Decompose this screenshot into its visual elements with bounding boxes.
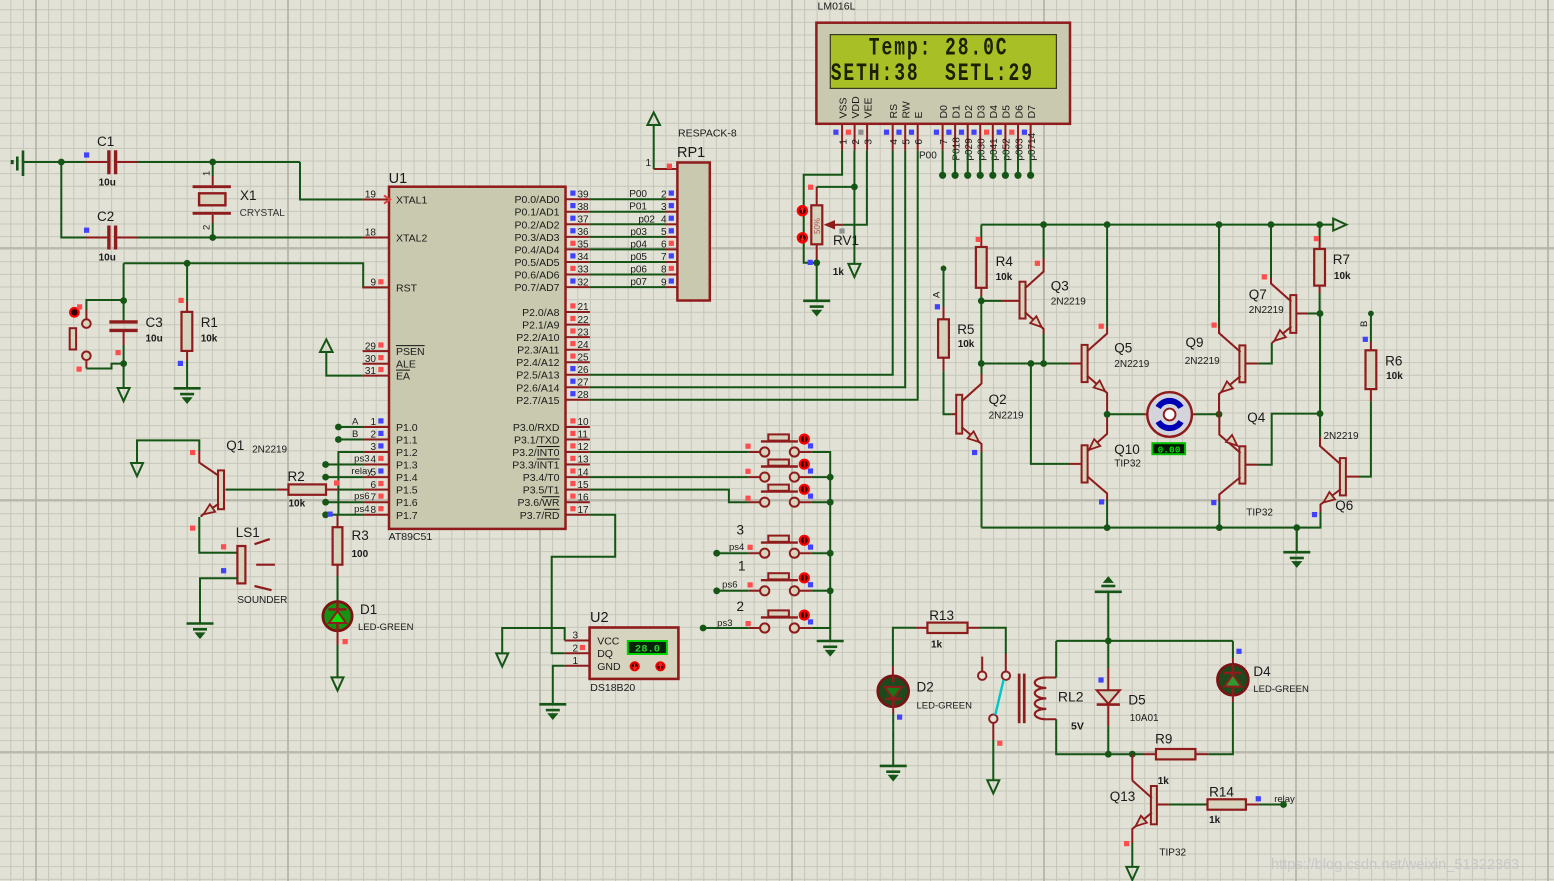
U1 left pins PSEN ALE EA [363, 350, 389, 352]
junction [978, 360, 985, 367]
svg-text:LED-GREEN: LED-GREEN [1253, 684, 1309, 695]
svg-text:23: 23 [578, 327, 590, 338]
svg-text:LS1: LS1 [236, 525, 260, 540]
wire VDD down [853, 150, 855, 264]
button 5 (ps6) [749, 572, 812, 595]
junction [184, 260, 191, 267]
wire P3.2 to button [590, 451, 749, 453]
junction [58, 159, 65, 166]
svg-text:2N2219: 2N2219 [1051, 297, 1086, 308]
svg-text:3: 3 [661, 202, 667, 213]
push button (reset) [69, 300, 124, 369]
junction [322, 461, 329, 468]
svg-text:P3.6/WR: P3.6/WR [517, 497, 559, 509]
U1 XTAL1 clock marker [384, 196, 390, 204]
wire Q9 base [1245, 363, 1258, 365]
svg-text:Q1: Q1 [226, 438, 244, 453]
junction [1216, 524, 1223, 531]
U2 display 28.0 [628, 641, 667, 654]
svg-text:P0.2/AD2: P0.2/AD2 [515, 219, 560, 231]
ground (H-bridge) [1283, 552, 1310, 566]
svg-text:R6: R6 [1385, 354, 1402, 369]
power arrow (EA) [320, 339, 333, 352]
svg-text:p0714: p0714 [1027, 132, 1038, 160]
svg-text:p06: p06 [630, 265, 647, 276]
svg-text:E: E [913, 111, 925, 118]
svg-text:D2: D2 [963, 105, 975, 119]
node D0 [939, 172, 946, 179]
svg-text:22: 22 [578, 315, 590, 326]
junction [120, 360, 127, 367]
node D2 [964, 172, 971, 179]
svg-text:Q3: Q3 [1051, 279, 1069, 294]
svg-text:14: 14 [578, 467, 590, 478]
svg-text:P00: P00 [919, 151, 937, 162]
svg-text:SETH:38 SETL:29: SETH:38 SETL:29 [831, 59, 1034, 88]
svg-text:p05: p05 [630, 252, 647, 263]
svg-text:VEE: VEE [862, 97, 874, 118]
svg-text:relay: relay [1274, 794, 1295, 805]
wire B to P1.1 [338, 439, 363, 441]
junction [335, 436, 342, 443]
ground (RV1) [803, 301, 830, 315]
wire A to P1.0 [338, 426, 363, 428]
wire P0.4 to RP1 [590, 248, 666, 250]
wire R4 to node [980, 296, 982, 301]
svg-text:Q6: Q6 [1335, 498, 1353, 513]
svg-text:P2.2/A10: P2.2/A10 [516, 332, 559, 344]
junction [1268, 221, 1275, 228]
svg-text:2: 2 [370, 430, 376, 441]
svg-text:11: 11 [578, 430, 589, 441]
svg-text:VSS: VSS [837, 97, 849, 118]
wire RST net [124, 263, 389, 287]
svg-text:P0.5/AD5: P0.5/AD5 [515, 257, 560, 269]
wire VEE to RV1 wiper [843, 150, 867, 224]
wire to Q4 base [1258, 414, 1320, 465]
svg-text:10u: 10u [146, 334, 163, 345]
junction [335, 424, 342, 431]
wire Q5 collector to rail [1106, 225, 1108, 327]
wire RP1 pin1 to power [653, 125, 655, 169]
wire node to node [980, 301, 982, 364]
transistor Q9 2N2219 (mirrored) [1219, 327, 1245, 400]
svg-text:p041: p041 [989, 138, 1000, 161]
junction [713, 550, 720, 557]
svg-text:18: 18 [365, 228, 377, 239]
wire to motor [1107, 413, 1144, 415]
wire rail to D4 [1232, 641, 1234, 658]
wire ps4 to P1.7 [326, 514, 363, 516]
svg-text:10k: 10k [201, 334, 218, 345]
svg-text:4: 4 [661, 215, 667, 226]
junction [1129, 751, 1136, 758]
svg-text:10k: 10k [289, 499, 306, 510]
svg-text:P2.0/A8: P2.0/A8 [522, 307, 560, 319]
svg-text:RP1: RP1 [677, 145, 705, 161]
svg-text:10u: 10u [99, 178, 116, 189]
wire gnd to C1 [24, 161, 86, 163]
svg-text:29: 29 [365, 341, 377, 352]
wire Q7 base to node [1308, 313, 1320, 315]
svg-text:P0.4/AD4: P0.4/AD4 [515, 244, 560, 256]
wire U2 VCC [502, 628, 565, 653]
svg-text:P0.1/AD1: P0.1/AD1 [515, 207, 560, 219]
svg-text:2: 2 [572, 643, 578, 654]
wire LCD D2 [967, 150, 969, 173]
svg-text:ps3: ps3 [354, 454, 369, 465]
ground (buttons) [817, 641, 844, 655]
crystal X1 [193, 162, 231, 238]
wire LCD D0 [942, 150, 944, 173]
relay switch contacts [978, 654, 1010, 740]
wire top rail [981, 224, 1333, 226]
svg-text:P1.7: P1.7 [396, 510, 418, 522]
svg-text:27: 27 [578, 378, 590, 389]
junction [1028, 360, 1035, 367]
LED D2 LED-GREEN [878, 676, 909, 707]
svg-text:D5: D5 [1128, 693, 1145, 708]
wire to C2 [61, 162, 86, 238]
wire P3.4 to button [590, 476, 749, 478]
wire P0.2 to RP1 [590, 223, 666, 225]
wire RV1 top to VDD [817, 186, 855, 188]
svg-text:D4: D4 [988, 105, 1000, 119]
motor speed display 0.00 [1152, 443, 1185, 454]
svg-text:p02: p02 [638, 214, 655, 225]
wire ps6 [717, 590, 749, 592]
wire LCD D6 [1017, 150, 1019, 173]
svg-text:R1: R1 [201, 315, 218, 330]
wire Q7 base [1296, 313, 1308, 315]
node D7 [1027, 172, 1034, 179]
svg-text:XTAL1: XTAL1 [396, 195, 427, 207]
svg-text:RS: RS [888, 104, 900, 119]
wire Q9 base to Q7 emitter [1258, 343, 1271, 364]
svg-text:4: 4 [889, 139, 900, 145]
svg-text:P1.1: P1.1 [396, 435, 418, 447]
wire to XTAL1 [300, 162, 363, 200]
button 4 (ps4) [749, 535, 812, 558]
transistor Q4 TIP32 (mirrored) [1219, 428, 1245, 501]
wire LCD D7 [1030, 150, 1032, 173]
svg-text:3: 3 [863, 139, 874, 145]
svg-text:3: 3 [370, 442, 376, 453]
wire Q13 base to R14 [1157, 804, 1169, 806]
wire P0.5 to RP1 [590, 261, 666, 263]
svg-text:38: 38 [578, 202, 590, 213]
node D4 [989, 172, 996, 179]
svg-text:SOUNDER: SOUNDER [237, 595, 287, 606]
svg-text:9: 9 [661, 277, 667, 288]
wire ps6 to P1.6 [326, 501, 363, 503]
svg-text:28: 28 [578, 390, 590, 401]
relay RL2 coil [1018, 674, 1056, 724]
U1 right pins P2.0-P2.7 [566, 311, 590, 313]
junction [813, 259, 820, 266]
svg-text:D4: D4 [1253, 664, 1271, 679]
junction [713, 587, 720, 594]
svg-text:p030: p030 [977, 138, 988, 161]
junction [827, 587, 834, 594]
terminal arrow (U2 VCC) [496, 653, 508, 666]
transistor Q10 TIP32 [1082, 428, 1108, 500]
node relay [1280, 801, 1287, 808]
resistor R14 [1208, 799, 1246, 809]
svg-text:D1: D1 [360, 602, 377, 617]
wire ps4 [717, 552, 749, 554]
button 6 (ps3) [749, 610, 812, 633]
svg-text:36: 36 [578, 227, 590, 238]
wire ps3 [703, 627, 749, 629]
wire R13 to D2 [893, 628, 915, 666]
svg-text:0.00: 0.00 [1158, 444, 1181, 455]
wire C2/X1 to XTAL2 [137, 237, 363, 239]
U1 right pins P0.0-P0.7 [566, 198, 590, 200]
wire ps3 to P1.3 [326, 464, 363, 466]
svg-text:35: 35 [578, 240, 590, 251]
svg-text:D3: D3 [976, 105, 988, 119]
wire P0.1 to RP1 [590, 211, 666, 213]
svg-text:P0.6/AD6: P0.6/AD6 [515, 270, 560, 282]
junction [827, 499, 834, 506]
svg-text:7: 7 [370, 492, 376, 503]
wire RV1 to ground [816, 263, 818, 301]
svg-text:10A01: 10A01 [1130, 713, 1159, 724]
ground (R1) [174, 388, 201, 402]
svg-text:DQ: DQ [597, 648, 613, 660]
svg-text:6: 6 [661, 240, 667, 251]
node A [941, 266, 947, 272]
wire U2 GND [553, 666, 565, 704]
resistor R3 [337, 516, 339, 577]
wire P0.7 to RP1 [590, 286, 666, 288]
svg-text:5: 5 [902, 139, 913, 145]
svg-text:EA: EA [396, 371, 410, 383]
svg-text:5: 5 [661, 227, 667, 238]
junction [322, 511, 329, 518]
LED D4 LED-GREEN [1218, 664, 1249, 695]
svg-text:6: 6 [914, 139, 925, 145]
wire VSS to gnd node [804, 150, 842, 262]
capacitor C2 [86, 237, 107, 239]
potentiometer RV1 [798, 187, 843, 263]
junction [1105, 638, 1112, 645]
wire LCD D1 [954, 150, 956, 173]
svg-text:R5: R5 [957, 322, 974, 337]
svg-text:R2: R2 [288, 469, 305, 484]
svg-text:21: 21 [578, 302, 590, 313]
svg-text:1: 1 [572, 656, 578, 667]
wire rail to R4 [980, 225, 982, 240]
junction [827, 550, 834, 557]
wire relay top rail [1056, 640, 1233, 642]
svg-text:U2: U2 [590, 610, 609, 626]
svg-text:p063: p063 [1014, 138, 1025, 161]
junction [1040, 221, 1047, 228]
wire coil to rail [1055, 641, 1057, 678]
svg-text:1: 1 [738, 559, 746, 574]
svg-text:AT89C51: AT89C51 [389, 531, 433, 543]
svg-text:100: 100 [352, 549, 369, 560]
node D6 [1014, 172, 1021, 179]
wire Q2 collector [981, 364, 983, 375]
svg-text:1k: 1k [1158, 776, 1170, 787]
wire relay bottom rail [1056, 719, 1132, 754]
terminal arrow (C3 ground) [118, 388, 130, 401]
svg-text:VDD: VDD [850, 96, 862, 119]
svg-text:RW: RW [901, 101, 913, 118]
svg-text:3: 3 [572, 631, 578, 642]
svg-text:P1.3: P1.3 [396, 460, 418, 472]
svg-text:p052: p052 [1002, 138, 1013, 161]
transistor Q2 2N2219 [956, 374, 981, 452]
svg-text:Q2: Q2 [989, 392, 1007, 407]
wire Q3 emitter [1043, 334, 1045, 364]
svg-text:10: 10 [578, 417, 590, 428]
U1 left pins P1.0-P1.7 [363, 426, 389, 428]
svg-text:ALE: ALE [396, 359, 416, 371]
svg-text:relay: relay [351, 466, 372, 477]
terminal arrow (switch) [987, 780, 999, 793]
svg-text:ps3: ps3 [717, 618, 732, 629]
wire Q6 collector [1319, 431, 1321, 437]
resistor R9 [1144, 753, 1156, 755]
svg-text:C3: C3 [146, 315, 163, 330]
wire P0.0 to RP1 [590, 198, 666, 200]
svg-text:6: 6 [370, 480, 376, 491]
resistor R6 [1370, 342, 1372, 401]
svg-text:Q4: Q4 [1247, 410, 1266, 425]
resistor R13 [915, 627, 927, 629]
wire Q1 collector [137, 440, 199, 463]
wire to Q6 collector [1319, 414, 1321, 437]
wire R5 to Q2 base [944, 371, 952, 414]
svg-text:1k: 1k [833, 267, 845, 278]
wire button bus [812, 452, 830, 628]
svg-text:B: B [1359, 321, 1370, 327]
svg-text:R3: R3 [352, 528, 369, 543]
svg-text:X1: X1 [240, 188, 257, 203]
wire Q1 base to R2 [226, 489, 277, 491]
LCD pins [841, 124, 843, 151]
svg-text:P0.3/AD3: P0.3/AD3 [515, 232, 560, 244]
svg-text:1: 1 [838, 139, 849, 145]
wire R1 to ground [186, 361, 188, 388]
wire to R1 [186, 263, 188, 302]
svg-text:2N2219: 2N2219 [1114, 359, 1149, 370]
junction [1317, 410, 1324, 417]
svg-text:https://blog.csdn.net/weixin_5: https://blog.csdn.net/weixin_51322363 [1271, 857, 1519, 873]
svg-text:P1.2: P1.2 [396, 447, 418, 459]
svg-text:2: 2 [661, 189, 667, 200]
svg-text:RL2: RL2 [1058, 689, 1084, 705]
junction [1216, 221, 1223, 228]
svg-text:C1: C1 [97, 134, 114, 149]
wire to R9 [1132, 753, 1144, 755]
wire P2.6 to LCD RW [590, 150, 905, 387]
wire LCD D3 [979, 150, 981, 173]
svg-text:P1.6: P1.6 [396, 497, 418, 509]
svg-text:10k: 10k [1334, 271, 1351, 282]
svg-text:P3.1/TXD: P3.1/TXD [514, 435, 560, 447]
wire EA to power [326, 352, 362, 376]
wire B to R6 [1370, 314, 1372, 343]
wire P2.5 to LCD RS [590, 150, 893, 374]
svg-text:10k: 10k [996, 272, 1013, 283]
svg-text:DS18B20: DS18B20 [590, 682, 635, 694]
wire Q1 emitter to LS1 [199, 517, 237, 553]
wire btn4 to bus [812, 552, 830, 554]
wire R3 to D1 [337, 576, 339, 601]
U2 adjust buttons [630, 661, 640, 671]
svg-text:Q13: Q13 [1110, 789, 1136, 804]
svg-text:LED-GREEN: LED-GREEN [358, 622, 414, 633]
wire P3.7 to DS18B20 DQ [552, 515, 616, 653]
svg-text:26: 26 [578, 365, 590, 376]
junction [1316, 221, 1323, 228]
wire rail to ground [1296, 528, 1298, 552]
button 2 (P3.4) [749, 459, 812, 482]
svg-text:A: A [932, 291, 943, 298]
ground (LS1) [187, 624, 214, 638]
svg-text:R14: R14 [1209, 785, 1234, 800]
power symbol (relay) [1095, 578, 1122, 592]
svg-text:25: 25 [578, 352, 590, 363]
svg-text:P3.7/RD: P3.7/RD [520, 510, 560, 522]
svg-text:p07: p07 [630, 277, 647, 288]
RP1 pin 1 [654, 168, 678, 170]
wire motor right [1196, 413, 1219, 415]
svg-text:P2.3/A11: P2.3/A11 [517, 345, 560, 357]
svg-text:p03: p03 [630, 227, 647, 238]
wire bus to ground [829, 628, 831, 640]
svg-text:P1.5: P1.5 [396, 485, 418, 497]
svg-text:U1: U1 [389, 171, 408, 187]
svg-text:34: 34 [578, 252, 590, 263]
svg-text:5V: 5V [1071, 721, 1084, 733]
transistor Q1 2N2219 [199, 451, 224, 517]
svg-text:R4: R4 [996, 254, 1014, 269]
motor node right [1216, 411, 1223, 418]
svg-text:GND: GND [597, 661, 621, 673]
junction [978, 298, 985, 305]
temperature sensor U2 DS18B20 [590, 628, 679, 679]
power arrow (RP1) [647, 112, 660, 125]
svg-text:Temp: 28.0C: Temp: 28.0C [869, 34, 1009, 63]
svg-text:2N2219: 2N2219 [252, 445, 287, 456]
svg-text:P1.4: P1.4 [396, 472, 418, 484]
svg-text:1k: 1k [1209, 815, 1221, 826]
svg-text:D5: D5 [1001, 105, 1013, 119]
terminal arrow (VDD) [848, 264, 860, 277]
svg-text:10u: 10u [99, 253, 116, 264]
svg-text:P2.7/A15: P2.7/A15 [516, 395, 559, 407]
svg-text:P3.3/INT1: P3.3/INT1 [512, 460, 559, 472]
wire to Q10 base [1031, 364, 1069, 464]
wire to power [1107, 592, 1109, 641]
svg-text:1: 1 [645, 158, 651, 169]
ground (U2) [539, 704, 566, 718]
svg-text:P3.5/T1: P3.5/T1 [523, 485, 560, 497]
svg-text:TIP32: TIP32 [1159, 847, 1186, 858]
svg-text:15: 15 [578, 480, 590, 491]
junction [1293, 524, 1300, 531]
svg-text:P2.4/A12: P2.4/A12 [516, 357, 559, 369]
sounder LS1 [237, 539, 275, 590]
svg-text:P2.6/A14: P2.6/A14 [516, 382, 559, 394]
wire LCD D4 [992, 150, 994, 173]
